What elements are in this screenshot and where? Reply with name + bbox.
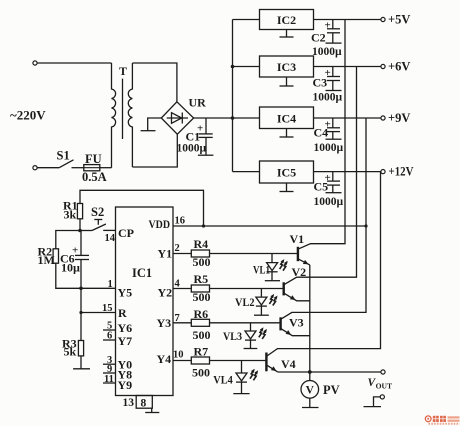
svg-text:VL4: VL4 (213, 375, 233, 387)
label +12V (389, 165, 414, 179)
capacitor C1 1000u (198, 118, 214, 155)
resistor R6 500 (173, 319, 280, 326)
label FU (85, 152, 102, 166)
label R6 (193, 307, 211, 342)
svg-text:S1: S1 (57, 149, 70, 163)
transistor V1 (298, 20, 345, 265)
label R4 (193, 237, 211, 269)
label Y9 (118, 378, 133, 392)
pin 1 label (108, 279, 113, 290)
node: AC input lower terminal (33, 166, 37, 170)
svg-text:1000µ: 1000µ (313, 92, 343, 104)
ground under IC3 (280, 77, 294, 86)
regulator IC2 (260, 10, 314, 30)
regulator IC3 (260, 56, 314, 77)
pin 5 stub (103, 321, 116, 332)
pin 11 stub (103, 374, 116, 385)
transistor V3 (281, 118, 366, 336)
node: junction VDD at +9V rail (364, 224, 367, 227)
pin 7 label (175, 313, 180, 324)
svg-text:PV: PV (323, 383, 340, 397)
label VL4 (213, 375, 233, 387)
svg-text:Y9: Y9 (118, 378, 133, 392)
resistor R5 500 (173, 285, 283, 292)
wire: upper AC input to transformer primary (37, 62, 111, 64)
label C2 (311, 20, 342, 59)
label pin 14 (105, 233, 116, 244)
svg-text:V4: V4 (281, 357, 296, 371)
LED VL3 (244, 323, 267, 349)
wire: junction to Y5 pin 1 (81, 287, 116, 289)
label R1 (63, 199, 78, 222)
label R7 (192, 345, 210, 380)
svg-text:C2: C2 (311, 31, 326, 45)
svg-text:V: V (306, 385, 315, 397)
node: +6V terminal (381, 64, 385, 68)
svg-text:1000µ: 1000µ (314, 196, 344, 208)
ground under IC2 (280, 30, 294, 38)
node: +12V terminal (381, 170, 385, 174)
transformer T primary winding (112, 63, 116, 168)
svg-text:+9V: +9V (388, 111, 410, 125)
svg-text:3k: 3k (64, 208, 77, 222)
wire: IC5 output to +12V (314, 171, 382, 173)
ground under IC5 (280, 183, 294, 192)
transistor V4 (266, 172, 380, 372)
transformer T secondary winding (128, 63, 132, 167)
node: Vout terminal (381, 370, 385, 374)
svg-text:+6V: +6V (388, 60, 410, 74)
svg-text:Y1: Y1 (158, 247, 173, 261)
wire: IC3 output to +6V (314, 66, 382, 68)
ground terminal at output (364, 395, 385, 407)
label VL3 (223, 331, 242, 343)
label Y6 (118, 321, 133, 335)
svg-text:V2: V2 (292, 265, 307, 279)
label VL2 (235, 297, 255, 309)
svg-text:0.5A: 0.5A (82, 170, 107, 184)
svg-text:Y5: Y5 (118, 286, 133, 300)
node: AC input upper terminal (33, 61, 37, 65)
label C6 (60, 245, 80, 275)
wire: secondary bottom to bridge (132, 134, 177, 167)
ground under IC4 (280, 129, 294, 138)
bridge rectifier UR (161, 102, 193, 134)
wire: junction down to R pin 15 and R3 (80, 288, 82, 340)
svg-text:Y6: Y6 (118, 321, 133, 335)
label R (118, 306, 127, 320)
label C5 (314, 172, 344, 208)
svg-text:FU: FU (85, 152, 102, 166)
capacitor C4 1000u (326, 118, 342, 139)
label Y3 (157, 316, 172, 330)
label Y8 (118, 368, 133, 382)
svg-text:VDD: VDD (149, 217, 171, 231)
wire: bus to IC5 input (233, 171, 260, 173)
label +5V (388, 13, 410, 27)
wire: bus to IC2 input (233, 19, 260, 21)
ground below R3 (73, 368, 90, 370)
transformer T core (122, 79, 124, 139)
label Vout (368, 377, 393, 391)
svg-text:13: 13 (123, 397, 135, 409)
label Y1 (158, 247, 173, 261)
resistor R1 3k (77, 204, 82, 231)
switch S1 (37, 160, 84, 168)
svg-text:14: 14 (105, 233, 116, 244)
svg-text:15: 15 (102, 303, 113, 314)
svg-text:C5: C5 (314, 180, 329, 194)
label V4 (281, 357, 296, 371)
svg-text:Y2: Y2 (158, 286, 173, 300)
LED VL2 (254, 289, 278, 316)
svg-text:VL3: VL3 (223, 331, 242, 343)
label Y0 (118, 358, 133, 372)
label PV (323, 383, 340, 397)
label Y7 (118, 334, 133, 348)
op-amp IC1 box (decade counter) (116, 207, 174, 396)
svg-text:C1: C1 (186, 130, 201, 144)
pin 2 label (175, 243, 180, 254)
svg-text:OUT: OUT (376, 381, 392, 390)
pin 10 label (173, 350, 184, 361)
svg-text:1000µ: 1000µ (312, 46, 342, 58)
node: output junction (308, 370, 312, 374)
label UR (189, 96, 207, 110)
pin 4 label (175, 279, 181, 290)
node: junction rectifier output / bus (231, 116, 235, 120)
node: +5V terminal (381, 17, 385, 21)
label Y4 (157, 352, 172, 366)
svg-text:500: 500 (193, 328, 211, 342)
svg-text:CP: CP (118, 226, 134, 240)
svg-text:Y3: Y3 (157, 316, 172, 330)
svg-text:IC5: IC5 (277, 166, 296, 180)
svg-text:R7: R7 (194, 345, 209, 359)
node: bus junction at IC3 (231, 65, 235, 69)
svg-text:V1: V1 (290, 232, 305, 246)
svg-text:6: 6 (107, 331, 112, 342)
svg-text:10µ: 10µ (61, 261, 80, 275)
wire: output line to Vout terminal (278, 371, 382, 373)
label V2 (292, 265, 307, 279)
label V3 (289, 316, 304, 330)
label Y2 (158, 286, 173, 300)
wire: to R pin 15 (81, 312, 116, 314)
label R3 (62, 337, 77, 359)
svg-text:+5V: +5V (388, 13, 410, 27)
svg-text:+12V: +12V (389, 165, 414, 179)
transistor V2 (284, 67, 357, 301)
svg-text:2: 2 (175, 243, 180, 254)
node: junction R1 / S2 / R2 / C6 (78, 229, 82, 233)
watermark logo (425, 416, 459, 424)
label 0.5A (82, 170, 107, 184)
svg-text:11: 11 (104, 374, 114, 385)
wire: secondary top to bridge (132, 63, 177, 102)
svg-text:16: 16 (175, 216, 186, 227)
svg-text:1000µ: 1000µ (177, 143, 207, 155)
pin 9 stub (103, 364, 116, 375)
wire: IC2 output to +5V (314, 19, 382, 21)
svg-text:C4: C4 (314, 126, 329, 140)
node: +9V terminal (381, 116, 385, 120)
svg-text:~220V: ~220V (10, 108, 46, 123)
svg-text:IC1: IC1 (132, 266, 152, 280)
svg-text:5k: 5k (64, 345, 77, 359)
label C3 (313, 67, 343, 104)
resistor R3 5k (78, 341, 83, 369)
label Y5 (118, 286, 133, 300)
label IC1 (132, 266, 152, 280)
label C4 (314, 119, 344, 155)
label VDD (149, 217, 171, 231)
node: junction at R pin (79, 311, 82, 314)
label pin 13 (123, 397, 135, 409)
ground at bridge left vertex (141, 118, 162, 131)
LED VL1 (265, 254, 288, 281)
label VL1 (253, 265, 270, 277)
label +9V (388, 111, 410, 125)
svg-text:1000µ: 1000µ (314, 142, 344, 154)
fuse FU 0.5A (84, 165, 112, 171)
svg-text:IC4: IC4 (277, 112, 296, 126)
svg-text:1M: 1M (38, 253, 55, 267)
svg-text:10: 10 (173, 350, 184, 361)
node: junction VDD rail (202, 224, 205, 227)
svg-text:V3: V3 (289, 316, 304, 330)
svg-text:IC3: IC3 (277, 60, 296, 74)
svg-text:VL1: VL1 (253, 265, 270, 277)
resistor R2 1M (53, 231, 81, 289)
label R5 (193, 272, 211, 304)
pin 6 stub (103, 331, 116, 342)
wire: input bus for regulators (232, 20, 234, 172)
svg-text:R5: R5 (194, 272, 209, 286)
wire: bus to IC3 input (233, 66, 260, 68)
wire: VDD top rail to R1 (80, 190, 204, 226)
svg-text:Y7: Y7 (118, 334, 133, 348)
svg-text:500: 500 (193, 255, 211, 269)
regulator IC5 (260, 161, 314, 183)
pin 15 label (102, 303, 113, 314)
pin 16 label (175, 216, 186, 227)
wire: common emitter bus (309, 265, 311, 372)
svg-text:C3: C3 (313, 76, 328, 90)
label C1 (177, 123, 207, 155)
node: junction C6 / R2 / Y5 (79, 287, 83, 291)
svg-text:500: 500 (192, 365, 210, 379)
svg-text:1: 1 (108, 279, 113, 290)
capacitor C3 1000u (326, 67, 342, 91)
label CP (118, 226, 134, 240)
svg-text:R6: R6 (194, 307, 209, 321)
capacitor C2 1000u (326, 20, 342, 44)
pin 3 stub (103, 355, 116, 366)
capacitor C6 10u (75, 231, 89, 289)
svg-text:Y4: Y4 (157, 352, 172, 366)
svg-text:VL2: VL2 (235, 297, 255, 309)
label S2 (91, 205, 104, 219)
resistor R4 500 (173, 250, 297, 257)
svg-text:S2: S2 (91, 205, 104, 219)
svg-text:500: 500 (193, 290, 211, 304)
svg-text:T: T (119, 64, 127, 78)
LED VL4 (233, 361, 258, 394)
svg-text:UR: UR (189, 96, 207, 110)
label ~220V (10, 108, 46, 123)
voltmeter PV (301, 372, 319, 408)
wire: VDD pin 16 to +9V rail (173, 225, 366, 227)
svg-text:IC2: IC2 (277, 13, 296, 27)
label V1 (290, 232, 305, 246)
switch S2 (pushbutton) (80, 220, 116, 231)
regulator IC4 (260, 107, 314, 129)
ground below pin 8 (145, 408, 159, 412)
svg-text:R4: R4 (194, 237, 209, 251)
label +6V (388, 60, 410, 74)
wire: rectifier output to IC4 input (194, 117, 260, 119)
label T (119, 64, 127, 78)
svg-text:R: R (118, 306, 127, 320)
label R2 (38, 245, 55, 268)
capacitor C5 1000u (326, 172, 342, 193)
label S1 (57, 149, 70, 163)
pin 8 box under IC1 (136, 396, 152, 410)
resistor R7 500 (173, 357, 266, 364)
wire: IC4 output to +9V (314, 117, 382, 119)
svg-text:8: 8 (141, 398, 147, 410)
